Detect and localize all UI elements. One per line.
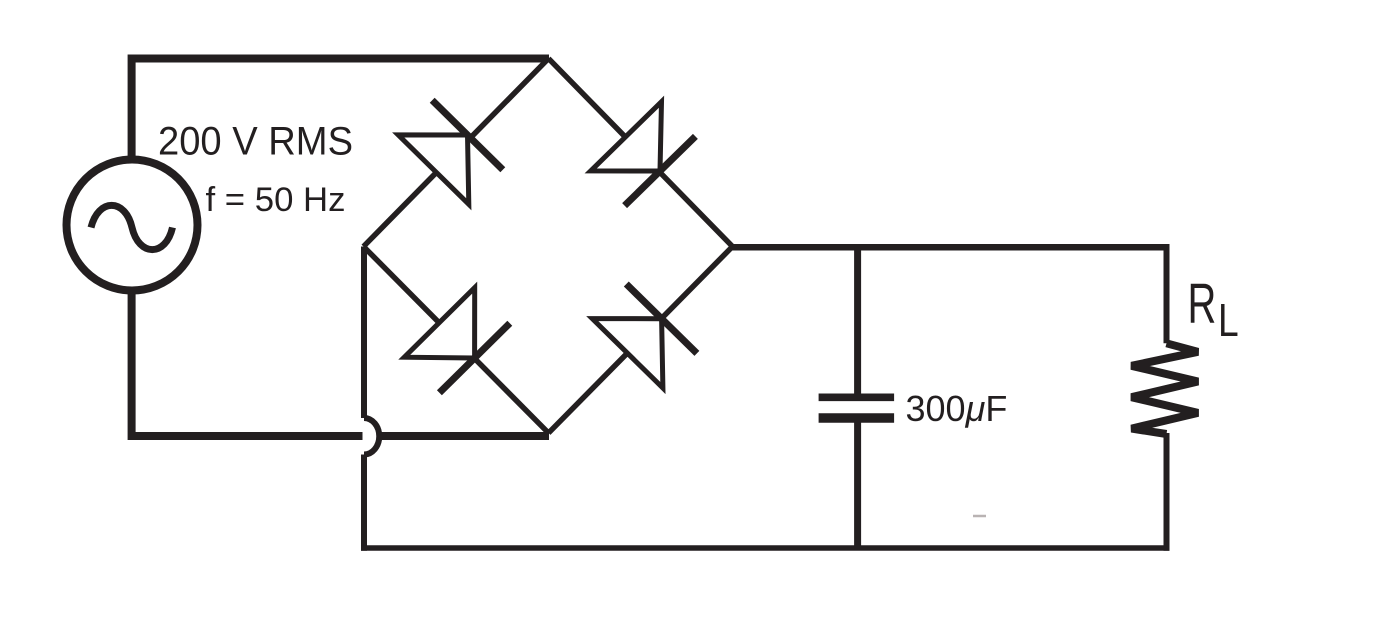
resistor RL bottom lead — [1164, 433, 1170, 551]
diode D2 cathode bar — [625, 136, 696, 205]
wire from bridge left vertex down (above hop) — [361, 247, 367, 419]
bridge branch bottom-right — [549, 247, 733, 434]
capacitor C1 top lead — [854, 247, 861, 394]
wire top from source to bridge top — [132, 59, 549, 163]
diode D4 lower-right: triangle — [592, 319, 663, 388]
diode D1 cathode bar — [432, 100, 503, 169]
capacitor C1 top plate — [819, 393, 895, 401]
wire from bridge right vertex to load — [730, 244, 1170, 251]
wire from hop down to bottom rail — [361, 455, 367, 551]
diode D4 cathode bar — [626, 284, 697, 353]
bridge branch top-right — [549, 59, 733, 247]
stray gray dash artifact — [973, 515, 986, 518]
wire bottom (right of hop) to bridge bottom vertex — [382, 432, 550, 440]
diode D2 upper-right: triangle — [591, 102, 662, 171]
label RL — [1188, 271, 1239, 346]
diode D1 upper-left: triangle — [398, 135, 469, 204]
resistor RL top lead — [1164, 244, 1170, 343]
capacitor C1 bottom lead — [854, 422, 861, 551]
bottom rail wire — [361, 545, 1170, 551]
svg-text:f = 50 Hz: f = 50 Hz — [206, 181, 346, 219]
wire hop over bottom AC wire — [364, 418, 379, 455]
AC source V1 circle — [67, 160, 198, 291]
AC source sine symbol — [91, 205, 173, 249]
svg-text:R: R — [1188, 271, 1217, 335]
capacitor C1 bottom plate — [819, 413, 895, 422]
diode D3 cathode bar — [439, 323, 509, 393]
svg-text:200 V RMS: 200 V RMS — [158, 120, 353, 164]
svg-text:300μF: 300μF — [906, 388, 1008, 429]
bridge branch left-bottom — [364, 247, 549, 434]
diode D3 lower-left: triangle — [404, 288, 474, 358]
bridge branch left-top — [364, 59, 549, 247]
resistor RL zigzag — [1132, 343, 1199, 434]
svg-text:L: L — [1218, 294, 1239, 346]
wire bottom from source to bridge bottom (left of hop) — [132, 289, 363, 436]
